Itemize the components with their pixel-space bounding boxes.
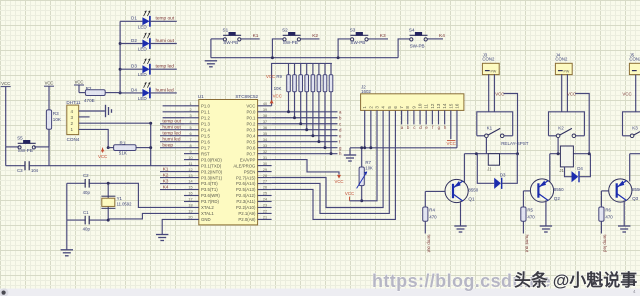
wire emitter Q2 [545, 200, 547, 226]
wire LCD RW route [272, 110, 390, 213]
relay coil K1 [488, 154, 499, 166]
svg-text:P2.4(A12): P2.4(A12) [236, 193, 256, 198]
svg-text:D4: D4 [131, 87, 137, 92]
svg-text:16: 16 [454, 103, 459, 109]
svg-text:P3.1(TXD): P3.1(TXD) [201, 163, 222, 168]
svg-text:J1: J1 [559, 168, 564, 173]
svg-text:8550: 8550 [468, 188, 478, 193]
svg-text:10K: 10K [274, 86, 282, 91]
connector J5 CON2 [629, 63, 640, 74]
svg-text:K4: K4 [163, 184, 169, 190]
svg-text:beep: beep [162, 142, 173, 148]
svg-text:22: 22 [263, 210, 267, 214]
wire S4 riser [398, 39, 410, 58]
relay K1 [477, 112, 513, 136]
svg-text:P1.4: P1.4 [201, 127, 210, 132]
resistor R4 [423, 207, 428, 221]
svg-text:LED: LED [138, 72, 148, 77]
svg-text:C3: C3 [17, 168, 23, 173]
wire coil K2 [557, 138, 559, 154]
crystal Y1 [102, 198, 115, 206]
svg-text:K2: K2 [558, 126, 564, 131]
svg-text:R1: R1 [120, 140, 126, 145]
svg-text:15: 15 [188, 186, 192, 190]
junction coil row L K1 [475, 152, 478, 155]
svg-text:7: 7 [189, 138, 191, 142]
svg-text:D1: D1 [131, 16, 137, 21]
svg-text:P3.2(INT0): P3.2(INT0) [201, 169, 223, 174]
relay K2 [549, 112, 585, 136]
junction xtal top [107, 182, 110, 185]
svg-text:11: 11 [189, 162, 193, 166]
svg-text:21: 21 [263, 216, 267, 220]
svg-text:EA/VPP: EA/VPP [240, 157, 256, 162]
svg-text:K1: K1 [253, 33, 259, 39]
capacitor C2 [84, 179, 86, 188]
wire lcd pin16 [456, 110, 458, 147]
diode D4 [565, 167, 572, 177]
wire DHT11 pin3 stub [79, 116, 90, 118]
wire collector Q2 [549, 154, 551, 182]
svg-text:SW-PB: SW-PB [223, 40, 238, 45]
svg-text:P3.6(WR): P3.6(WR) [201, 193, 220, 198]
svg-text:P1.7: P1.7 [201, 145, 210, 150]
svg-text:PW: PW [491, 69, 497, 73]
ground crystal [61, 250, 73, 256]
wire lcd pin1 [364, 110, 366, 147]
resistor R3 [48, 109, 50, 111]
power VCC red pot [349, 197, 351, 201]
svg-text:VCC: VCC [246, 104, 255, 109]
resistor R5 [521, 207, 526, 221]
svg-text:P1.0: P1.0 [201, 104, 210, 109]
svg-text:P1.1: P1.1 [201, 109, 210, 114]
junction coil row R K1 [516, 152, 519, 155]
junction S2 [271, 56, 274, 59]
svg-text:38: 38 [263, 114, 267, 118]
svg-text:14: 14 [442, 103, 447, 109]
svg-text:D3: D3 [131, 64, 137, 69]
svg-text:K3: K3 [380, 33, 386, 39]
resistor R6 [599, 207, 604, 221]
wire array columns [288, 92, 290, 112]
wire LCD E route [272, 110, 396, 219]
wire J4 pins [561, 74, 563, 112]
svg-text:P0.4: P0.4 [247, 133, 256, 138]
svg-text:P3.4(T0): P3.4(T0) [201, 181, 218, 186]
svg-text:25: 25 [263, 192, 267, 196]
svg-text:P0.0: P0.0 [247, 109, 256, 114]
svg-text:P2.6(A14): P2.6(A14) [236, 181, 256, 186]
svg-text:470: 470 [527, 214, 535, 219]
junction pot top [360, 146, 363, 149]
lcd J2 1602 [361, 94, 464, 111]
svg-text:P2.5(A13): P2.5(A13) [236, 187, 256, 192]
svg-text:9: 9 [189, 150, 191, 154]
wire lcd pin2 [370, 110, 372, 147]
wire crystal left rail [67, 182, 108, 184]
svg-text:S3: S3 [350, 27, 356, 32]
junction data pin8 [149, 146, 152, 149]
svg-text:R7: R7 [365, 160, 371, 165]
svg-text:K4: K4 [439, 33, 445, 39]
wire S1 row [211, 38, 223, 40]
svg-text:R6: R6 [605, 208, 611, 213]
svg-text:P2.3(A11): P2.3(A11) [236, 199, 256, 204]
svg-text:SW-PB: SW-PB [18, 148, 33, 153]
wire coil row K2 [550, 153, 589, 155]
wire GND pin20 [162, 219, 184, 234]
svg-text:U1: U1 [198, 94, 204, 99]
svg-text:STC89C52: STC89C52 [235, 94, 258, 99]
svg-text:10K: 10K [365, 166, 373, 171]
wire coil K1 [485, 138, 487, 154]
svg-text:VCC: VCC [1, 81, 10, 86]
svg-text:P1.5: P1.5 [201, 133, 210, 138]
wire DHT11 pin1 [79, 129, 109, 147]
svg-text:32: 32 [263, 150, 267, 154]
wire LED anode bus [119, 21, 121, 93]
push button S1 [223, 38, 226, 41]
svg-text:30: 30 [263, 162, 267, 166]
wire collector Q1 [463, 154, 465, 182]
svg-text:Q1: Q1 [468, 197, 475, 202]
svg-text:LED: LED [138, 96, 148, 101]
push button S4 [410, 38, 413, 41]
svg-text:S5: S5 [17, 135, 23, 140]
svg-text:Q2: Q2 [554, 196, 561, 201]
svg-text:4: 4 [71, 109, 74, 114]
svg-text:28: 28 [263, 174, 267, 178]
wire base Q1 [425, 190, 445, 192]
svg-text:24: 24 [263, 198, 267, 202]
svg-text:S2: S2 [282, 27, 288, 32]
bottom toolbar strip [0, 289, 640, 296]
svg-text:12: 12 [430, 103, 435, 109]
svg-text:VCC: VCC [447, 141, 456, 146]
svg-text:37: 37 [263, 120, 267, 124]
svg-text:temp led: temp led [162, 131, 181, 137]
svg-text:P0.3: P0.3 [247, 127, 256, 132]
svg-text:CON4: CON4 [67, 137, 80, 142]
svg-text:1: 1 [189, 102, 191, 106]
capacitor C3 [6, 165, 25, 167]
svg-text:GND: GND [201, 217, 211, 222]
junction LED bus 3 [119, 91, 122, 94]
wire R3 to C3 row [48, 129, 50, 166]
transistor Q3 [609, 179, 632, 202]
diode D3 [477, 154, 494, 184]
svg-text:K2: K2 [312, 33, 318, 39]
connector J4 CON2 [555, 63, 572, 74]
svg-text:10K: 10K [53, 117, 62, 122]
svg-text:humi out: humi out [156, 38, 175, 44]
power VCC 1 [1, 86, 11, 88]
wire XTAL1 [108, 213, 184, 218]
svg-text:5: 5 [189, 126, 191, 130]
svg-text:SW-PB: SW-PB [350, 40, 365, 45]
svg-text:51K: 51K [119, 151, 128, 156]
svg-text:RST: RST [201, 151, 210, 156]
junction lcd2 [369, 146, 372, 149]
svg-text:17: 17 [188, 198, 192, 202]
junction LED bus 2 [119, 68, 122, 71]
svg-text:R5: R5 [527, 208, 533, 213]
svg-text:C1: C1 [83, 210, 89, 215]
svg-text:P0.5: P0.5 [247, 139, 256, 144]
sensor U2 DHT11 [67, 105, 79, 135]
wire left rail [5, 147, 7, 166]
svg-text:头条 @小魁说事: 头条 @小魁说事 [514, 270, 637, 290]
wire base Q3 [601, 190, 608, 192]
svg-text:P1.6: P1.6 [201, 139, 210, 144]
wire emitter Q1 [460, 201, 462, 226]
resistor R2 [79, 92, 85, 94]
svg-text:35: 35 [263, 132, 267, 136]
svg-text:1602: 1602 [361, 89, 371, 94]
junction data/VCC [107, 146, 110, 149]
wire LCD RS route [272, 110, 384, 207]
svg-text:D2: D2 [131, 38, 137, 43]
svg-text:C2: C2 [83, 173, 89, 178]
svg-text:temp out: temp out [162, 119, 181, 125]
wire coil row K3 [630, 153, 640, 155]
svg-text:36: 36 [263, 126, 267, 130]
svg-text:P0.7: P0.7 [247, 151, 256, 156]
ground Q2 [540, 226, 552, 232]
wire DHT11 pin2 data [79, 122, 151, 124]
wire data vertical [150, 123, 152, 166]
svg-text:P1.2: P1.2 [201, 115, 210, 120]
svg-text:34: 34 [263, 138, 267, 142]
svg-text:18: 18 [188, 204, 192, 208]
svg-text:13: 13 [188, 174, 192, 178]
svg-text:Y1: Y1 [117, 196, 123, 201]
wire lcd pin3 [362, 110, 377, 200]
svg-text:29: 29 [263, 168, 267, 172]
svg-text:DHT11: DHT11 [66, 100, 81, 105]
svg-text:temp out: temp out [426, 235, 431, 254]
LED D2 [120, 43, 142, 45]
svg-text:4: 4 [189, 120, 191, 124]
ground Q3 [618, 226, 630, 232]
svg-text:humi out: humi out [524, 235, 529, 253]
wire DHT11 pin4 to ground [79, 110, 104, 112]
junction S3 [337, 56, 340, 59]
svg-text:40p: 40p [83, 190, 91, 195]
power VCC 3 [74, 84, 84, 86]
svg-text:R4: R4 [429, 208, 435, 213]
svg-text:temp led: temp led [602, 235, 607, 253]
svg-text:VCC: VCC [622, 91, 631, 96]
svg-text:K3: K3 [632, 126, 638, 131]
junction pot bottom [360, 199, 363, 202]
svg-text:8550: 8550 [632, 187, 640, 192]
wire lcd gnd rail [350, 147, 457, 149]
wire button rail top [210, 39, 212, 58]
svg-text:P0.1: P0.1 [247, 115, 256, 120]
LED D3 [120, 68, 142, 70]
svg-text:CON2: CON2 [555, 57, 568, 62]
svg-text:8550: 8550 [554, 187, 564, 192]
svg-text:XTAL1: XTAL1 [201, 211, 214, 216]
svg-text:D3: D3 [500, 173, 506, 178]
svg-text:VCC: VCC [495, 91, 504, 96]
svg-text:40: 40 [263, 102, 267, 106]
svg-text:VCC: VCC [98, 154, 107, 159]
svg-text:LED: LED [138, 47, 148, 52]
svg-text:20: 20 [188, 216, 192, 220]
svg-text:S1: S1 [223, 27, 229, 32]
svg-text:VCC: VCC [266, 74, 275, 79]
ground buttons [205, 61, 217, 67]
svg-text:humi led: humi led [156, 87, 174, 93]
svg-text:27: 27 [263, 180, 267, 184]
svg-text:P0.2: P0.2 [247, 121, 256, 126]
wire array VCC rail [272, 63, 332, 105]
svg-text:SW-PB: SW-PB [410, 44, 425, 49]
svg-text:104: 104 [31, 168, 39, 173]
svg-text:VCC: VCC [567, 91, 576, 96]
svg-text:11.0592: 11.0592 [117, 202, 132, 207]
wire coil row K1 [464, 153, 517, 155]
LED D1 [120, 20, 142, 22]
transistor Q1 [445, 179, 468, 202]
wire P1.0-P1.2 stubs [163, 105, 184, 107]
svg-text:humi led: humi led [162, 136, 180, 142]
wire collector Q3 [629, 154, 631, 182]
resistor network RP 10K [288, 63, 290, 74]
net labels K1-K4 MCU [160, 171, 184, 173]
relay coil K2 [560, 146, 573, 167]
push button S5 [18, 146, 21, 149]
svg-text:3: 3 [71, 115, 74, 120]
svg-text:CON2: CON2 [482, 57, 495, 62]
lcd data stubs a-h [401, 110, 403, 124]
svg-text:23: 23 [263, 204, 267, 208]
svg-text:10: 10 [188, 156, 192, 160]
wire crystal stem [107, 183, 109, 220]
wire J3 pins [488, 74, 490, 112]
svg-text:39: 39 [263, 108, 267, 112]
svg-text:2: 2 [71, 121, 74, 126]
relay K3 [623, 112, 640, 136]
svg-text:XTAL2: XTAL2 [201, 205, 214, 210]
svg-text:P0.6: P0.6 [247, 145, 256, 150]
push button S3 [351, 38, 354, 41]
svg-text:11: 11 [424, 103, 429, 108]
svg-text:VCC: VCC [75, 80, 84, 85]
svg-text:10: 10 [418, 103, 423, 109]
wire P0 bus rows [272, 111, 338, 113]
svg-text:K2: K2 [163, 172, 169, 178]
svg-text:8: 8 [189, 144, 191, 148]
svg-text:Q3: Q3 [632, 196, 639, 201]
svg-text:P1.3: P1.3 [201, 121, 210, 126]
svg-text:P3.3(INT1): P3.3(INT1) [201, 175, 223, 180]
svg-text:RELAY-SPST: RELAY-SPST [501, 141, 529, 146]
svg-text:VCC: VCC [273, 94, 282, 99]
resistor R1 [108, 147, 113, 149]
svg-text:PSEN: PSEN [244, 169, 256, 174]
junction data pin4 [149, 122, 152, 125]
svg-text:R9: R9 [276, 74, 282, 79]
svg-text:12: 12 [188, 168, 192, 172]
svg-text:ALE/PROG: ALE/PROG [233, 163, 256, 168]
svg-text:P2.0(A8): P2.0(A8) [238, 217, 256, 222]
ground lcd [349, 148, 351, 155]
svg-text:2: 2 [189, 108, 191, 112]
svg-text:VCC: VCC [345, 191, 354, 196]
wire emitter Q3 [623, 200, 625, 226]
svg-text:40p: 40p [83, 227, 91, 232]
svg-text:P3.5(T1): P3.5(T1) [201, 187, 218, 192]
svg-text:31: 31 [263, 156, 267, 160]
svg-text:temp led: temp led [156, 64, 175, 70]
svg-text:D4: D4 [577, 166, 583, 171]
junction lcd1 [363, 146, 366, 149]
connector J3 CON2 [482, 63, 499, 74]
wire S3 riser [338, 39, 350, 58]
junction coil row R K2 [588, 152, 591, 155]
svg-text:470: 470 [429, 214, 437, 219]
svg-text:R3: R3 [53, 111, 59, 116]
svg-text:R2: R2 [86, 86, 92, 91]
junction coil row L K2 [557, 152, 560, 155]
ground Q1 [454, 226, 466, 232]
svg-text:P3.7(RD): P3.7(RD) [201, 199, 219, 204]
wire button row [6, 146, 20, 148]
svg-text:14: 14 [188, 180, 192, 184]
LED D4 [120, 92, 142, 94]
svg-text:3: 3 [189, 114, 191, 118]
svg-text:470: 470 [605, 214, 613, 219]
svg-text:K3: K3 [163, 178, 169, 184]
ground MCU [156, 235, 168, 241]
svg-text:VCC: VCC [45, 81, 54, 86]
wire EA to VCC [272, 160, 339, 175]
wire base Q2 [523, 190, 530, 192]
wire S2 riser [272, 39, 283, 58]
svg-text:CON2: CON2 [629, 57, 640, 62]
push button S2 [283, 38, 286, 41]
svg-text:P2.2(A10): P2.2(A10) [236, 205, 256, 210]
svg-text:470E: 470E [84, 98, 95, 103]
wire J5 pins [635, 75, 637, 112]
svg-text:VCC: VCC [334, 179, 343, 184]
svg-text:26: 26 [263, 186, 267, 190]
svg-text:J1: J1 [487, 166, 492, 171]
svg-text:PW: PW [564, 69, 570, 73]
svg-text:33: 33 [263, 144, 267, 148]
svg-text:16: 16 [188, 192, 192, 196]
svg-text:humi out: humi out [162, 125, 181, 131]
svg-text:S4: S4 [409, 27, 415, 32]
power VCC 2 [44, 85, 54, 87]
wire lcd pin15 VCC [450, 110, 452, 139]
power VCC red data [102, 148, 104, 153]
svg-text:13: 13 [436, 103, 441, 109]
svg-text:temp out: temp out [156, 16, 175, 22]
transistor Q2 [530, 179, 553, 202]
mcu U1 STC89C52 [199, 100, 258, 225]
pot R7 [361, 148, 363, 167]
junction LED bus 1 [119, 42, 122, 45]
net labels P1.3-P1.7 [160, 123, 184, 125]
svg-text:15: 15 [448, 103, 453, 109]
svg-text:19: 19 [188, 210, 192, 214]
wire rail S2S3S4 [211, 57, 398, 59]
